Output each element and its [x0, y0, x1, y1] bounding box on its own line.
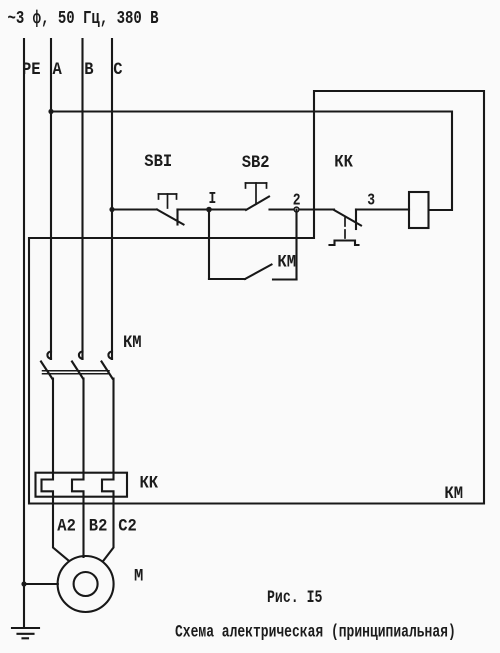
svg-text:А: А	[53, 59, 62, 79]
wire SB1 to SB2	[178, 208, 247, 210]
wire aux contact up to node 2	[295, 210, 297, 280]
svg-text:2: 2	[293, 192, 301, 210]
thermal relay KK NC contact blade	[334, 210, 361, 226]
wire from A junction to coil right side	[51, 112, 452, 211]
svg-text:3: 3	[367, 192, 375, 210]
junction on phase C	[109, 207, 114, 212]
pushbutton SB2 (NO) blade	[246, 197, 269, 211]
wire phase C bus vertical	[111, 39, 113, 359]
svg-text:~3 ф, 50 Гц, 380 В: ~3 ф, 50 Гц, 380 В	[8, 7, 159, 28]
pushbutton SB1 fixed terminal riser	[176, 210, 178, 225]
svg-text:КК: КК	[140, 473, 159, 493]
svg-text:С: С	[113, 59, 122, 79]
contactor KM pole C blade	[102, 362, 113, 379]
contactor KM pole A fixed contact hook	[47, 352, 51, 359]
coil KM	[409, 192, 429, 228]
svg-text:I: I	[209, 191, 217, 209]
wire phase B bus vertical	[81, 39, 83, 359]
svg-text:С2: С2	[118, 516, 137, 536]
wire node1 down to aux contact	[208, 210, 210, 280]
wire SB2 to KK contact	[270, 208, 335, 210]
thermal relay KK actuator dashed link	[344, 218, 346, 238]
node 1 junction	[206, 207, 212, 213]
wire aux contact left	[209, 278, 245, 280]
svg-text:РЕ: РЕ	[22, 59, 41, 79]
wire KK contact to coil	[356, 208, 409, 210]
contactor KM linkage double line	[43, 371, 110, 374]
svg-text:Схема алектрическая (принципиа: Схема алектрическая (принципиальная)	[175, 622, 456, 642]
contact KM auxiliary (NO) blade	[245, 265, 272, 280]
motor M inner circle	[74, 572, 98, 596]
wire PE bus vertical	[23, 39, 25, 628]
contactor KM pole C fixed contact hook	[108, 352, 112, 359]
svg-text:В: В	[84, 59, 93, 79]
contactor KM pole B blade	[72, 362, 83, 379]
pushbutton SB2 actuator	[246, 183, 267, 204]
thermal relay KK heater box	[36, 473, 128, 497]
svg-text:КК: КК	[334, 152, 353, 172]
svg-text:А2: А2	[57, 516, 76, 536]
wire phase C lower section	[102, 379, 114, 561]
wire aux contact right	[273, 278, 297, 280]
wire phase B lower section	[72, 379, 84, 558]
ground symbol	[12, 628, 39, 638]
thermal relay KK contact terminal riser	[355, 210, 357, 230]
svg-text:КМ: КМ	[277, 252, 296, 272]
motor M outer circle	[58, 556, 114, 612]
svg-text:М: М	[134, 566, 143, 586]
pushbutton SB1 (NC) blade	[157, 210, 184, 225]
contactor KM pole A blade	[41, 362, 52, 379]
svg-text:SB2: SB2	[242, 152, 270, 172]
wire phase A lower section	[42, 379, 69, 561]
pushbutton SB1 actuator	[159, 194, 177, 208]
svg-text:В2: В2	[89, 516, 108, 536]
svg-text:КМ: КМ	[123, 332, 142, 352]
node 2 terminal circle	[294, 207, 299, 212]
junction on phase A	[48, 109, 53, 114]
svg-text:SBI: SBI	[144, 151, 172, 171]
contactor KM pole B fixed contact hook	[79, 352, 83, 359]
wire PE to motor frame	[24, 583, 58, 585]
wire phase A bus vertical	[50, 39, 52, 359]
svg-text:КМ: КМ	[444, 483, 463, 503]
wire from C junction to SB1	[112, 208, 157, 210]
junction PE to motor frame	[21, 581, 26, 586]
wire big loop (coil return path)	[29, 91, 484, 504]
svg-text:Рис. I5: Рис. I5	[267, 587, 322, 607]
thermal relay KK release symbol	[330, 241, 359, 246]
